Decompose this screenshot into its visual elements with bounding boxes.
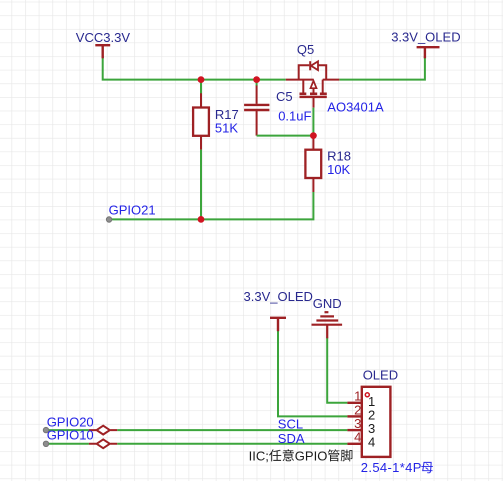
- svg-text:GPIO10: GPIO10: [47, 428, 94, 443]
- power flag VCC3.3V: [95, 45, 110, 58]
- svg-text:SCL: SCL: [278, 416, 303, 431]
- gate pin: [313, 98, 315, 108]
- svg-text:0.1uF: 0.1uF: [278, 109, 311, 124]
- power flag 3.3V_OLED (top right): [417, 47, 440, 58]
- wire: C5 bottom to gate node: [257, 135, 314, 137]
- pin end dot GPIO21: [106, 217, 111, 222]
- resistor R18: [305, 136, 321, 192]
- wire: GPIO20 to pin3: [46, 429, 89, 431]
- connector OLED body: [362, 387, 391, 457]
- resistor R17: [193, 93, 209, 149]
- svg-text:IIC;: IIC;: [249, 448, 269, 463]
- junction node: rail-R17: [198, 76, 205, 83]
- svg-text:51K: 51K: [215, 121, 238, 136]
- junction node: rail-C5: [253, 76, 260, 83]
- body diode loop: [299, 65, 310, 79]
- wire: R18 bottom to GPIO21 rail: [109, 192, 313, 219]
- svg-text:AO3401A: AO3401A: [327, 100, 384, 115]
- wire: R17 branch down from rail: [200, 80, 202, 94]
- svg-text:3.3V_OLED: 3.3V_OLED: [244, 289, 313, 304]
- transistor Q5 (PMOS AO3401A): [286, 61, 340, 107]
- body arrow: [313, 84, 315, 93]
- wire: GND stem down to pin1: [327, 338, 347, 403]
- wire: R17 bottom to GPIO21 rail: [200, 150, 202, 220]
- power flag 3.3V_OLED (bottom): [270, 318, 286, 331]
- net port diamond GPIO20: [89, 429, 117, 431]
- wire: 3.3V_OLED stem down to pin2: [278, 329, 347, 416]
- wire: gate down to node: [312, 108, 314, 136]
- svg-text:GND: GND: [313, 296, 342, 311]
- svg-text:GPIO: GPIO: [295, 448, 328, 463]
- pin end dot GPIO20: [43, 427, 48, 432]
- svg-text:3.3V_OLED: 3.3V_OLED: [391, 30, 460, 45]
- svg-text:SDA: SDA: [278, 431, 305, 446]
- svg-text:4: 4: [354, 430, 361, 445]
- wire: 3.3V_OLED stem down and rail left to Q5 drain: [339, 56, 425, 80]
- svg-text:VCC3.3V: VCC3.3V: [76, 30, 131, 45]
- wire: VCC3.3V stem down and main rail to Q5 source: [103, 56, 286, 80]
- value 2.54-1*4P母: [361, 460, 433, 475]
- svg-text:4: 4: [368, 434, 375, 449]
- source lead + left channel post: [286, 79, 314, 81]
- junction node: gate/C5/R18: [310, 132, 317, 139]
- svg-text:OLED: OLED: [363, 368, 398, 383]
- pin end dot GPIO10: [43, 441, 48, 446]
- wire: C5 branch down from rail: [256, 80, 258, 86]
- svg-text:Q5: Q5: [297, 42, 314, 57]
- svg-text:GPIO21: GPIO21: [109, 203, 156, 218]
- drain lead + right channel post: [323, 79, 340, 81]
- ground GND: [312, 312, 343, 338]
- pin-1 marker circle: [365, 393, 369, 397]
- channel dashes: [300, 94, 327, 97]
- wire: GPIO10 to pin4: [46, 443, 89, 445]
- note IIC;任意GPIO管脚: [249, 448, 353, 463]
- net port diamond GPIO10: [89, 443, 117, 445]
- capacitor C5: [244, 86, 269, 136]
- gate bar: [300, 96, 327, 98]
- svg-text:2.54-1*4P: 2.54-1*4P: [361, 460, 422, 475]
- junction node: GPIO21-R17: [198, 216, 205, 223]
- svg-text:10K: 10K: [327, 162, 350, 177]
- svg-text:C5: C5: [276, 89, 293, 104]
- connector OLED pin stubs: [347, 403, 361, 444]
- body diode triangle: [311, 61, 318, 70]
